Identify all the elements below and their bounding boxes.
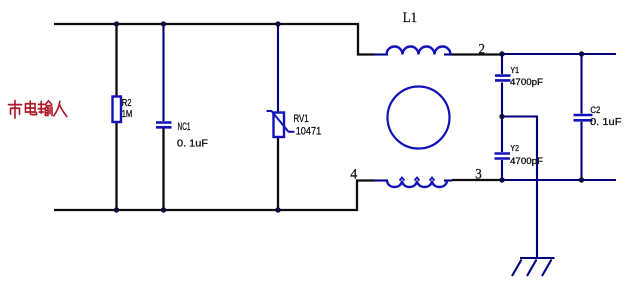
svg-text:4700pF: 4700pF <box>510 156 543 167</box>
svg-text:C2: C2 <box>590 105 600 116</box>
svg-text:0. 1uF: 0. 1uF <box>590 117 622 128</box>
svg-text:NC1: NC1 <box>178 121 191 133</box>
svg-text:Y2: Y2 <box>510 144 519 153</box>
svg-text:RV1: RV1 <box>294 113 309 125</box>
svg-text:4: 4 <box>350 167 357 183</box>
svg-text:3: 3 <box>475 167 482 183</box>
svg-text:0. 1uF: 0. 1uF <box>177 139 208 150</box>
svg-text:R2: R2 <box>122 98 132 109</box>
svg-text:10471: 10471 <box>296 126 322 138</box>
svg-text:L1: L1 <box>403 10 417 26</box>
svg-text:4700pF: 4700pF <box>510 77 543 88</box>
svg-text:Y1: Y1 <box>510 66 519 75</box>
svg-text:2: 2 <box>479 42 486 58</box>
svg-text:1M: 1M <box>122 109 133 120</box>
